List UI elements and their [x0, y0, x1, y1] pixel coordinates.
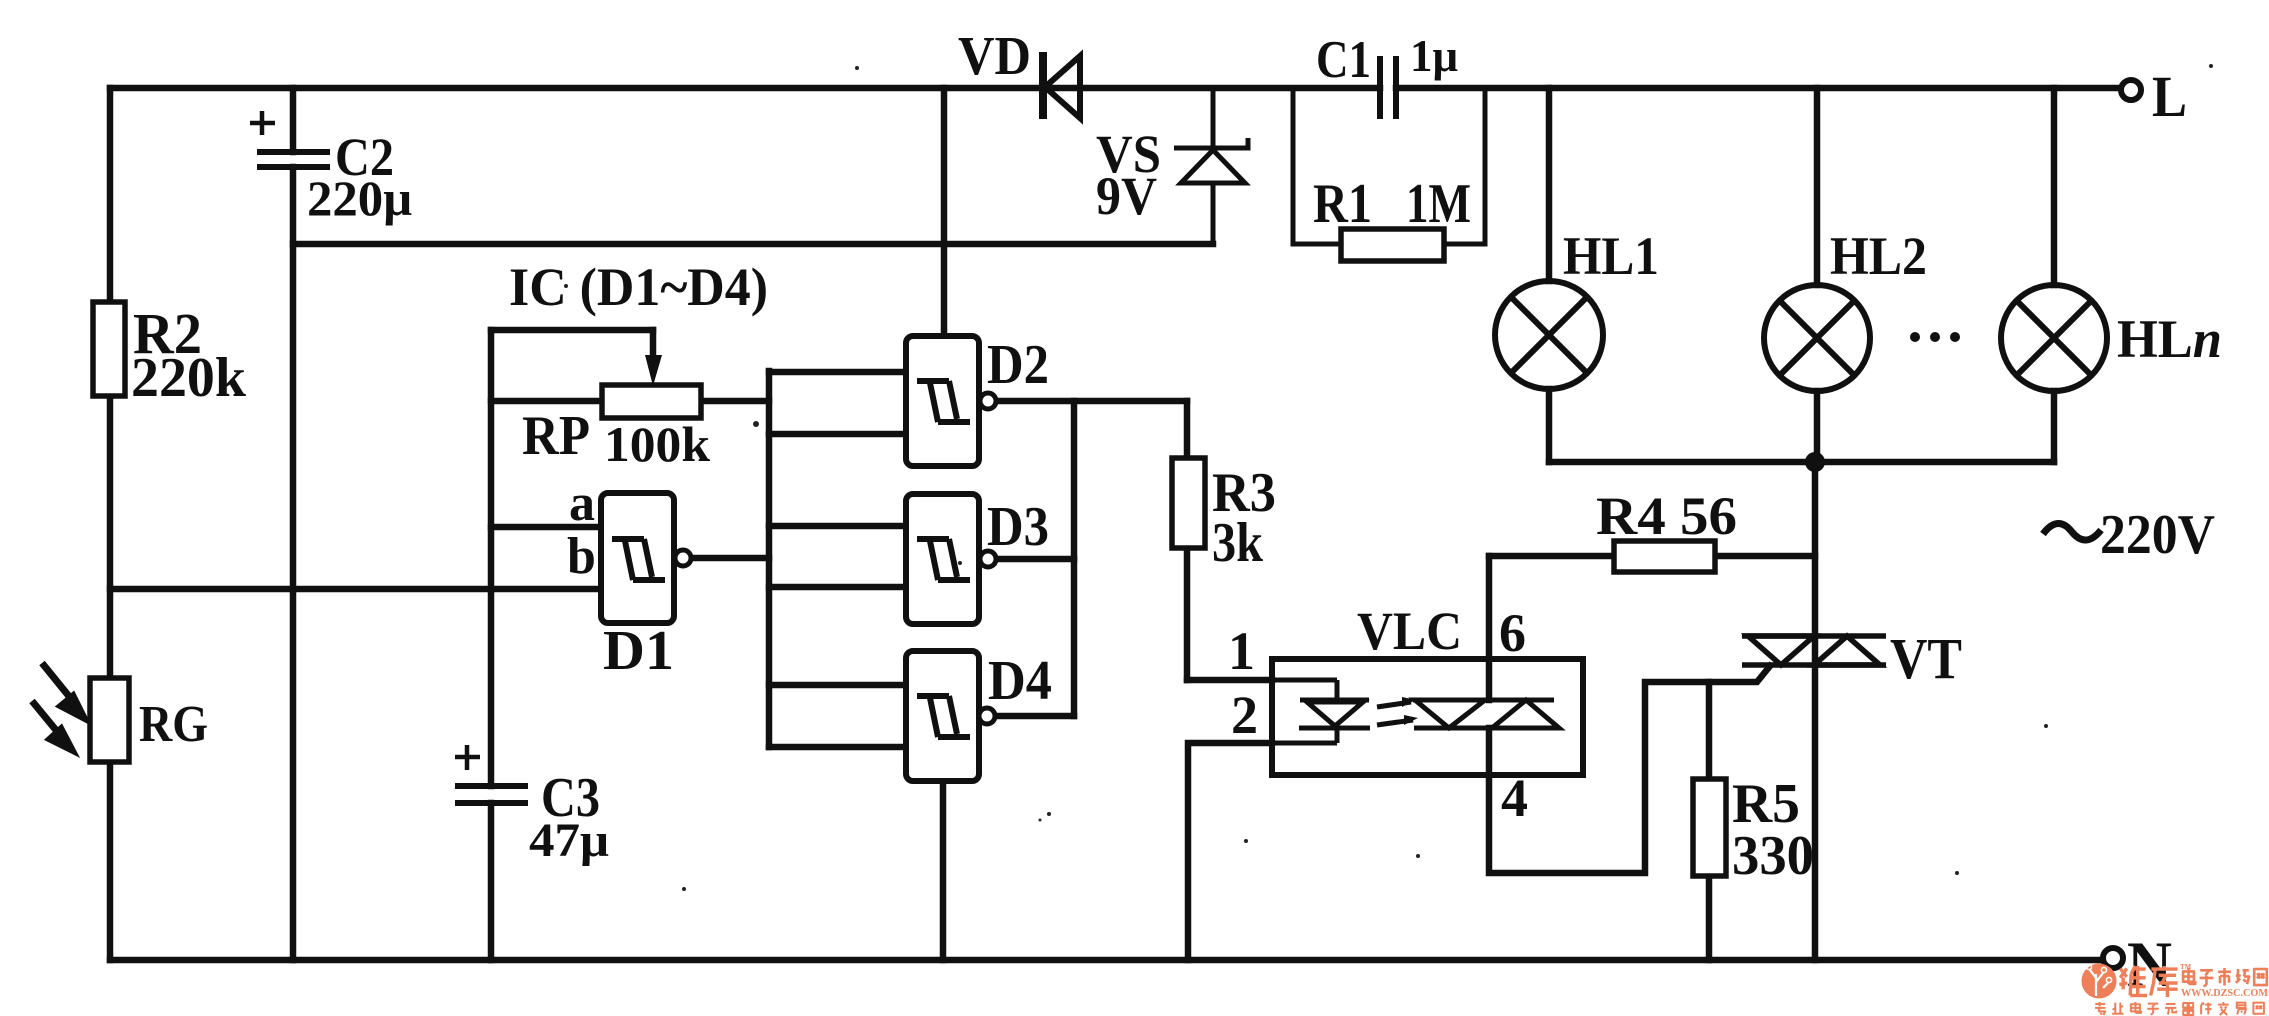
- svg-text:D2: D2: [987, 334, 1049, 396]
- svg-text:9V: 9V: [1096, 166, 1157, 226]
- svg-text:330: 330: [1732, 825, 1814, 887]
- svg-text:1: 1: [1228, 621, 1255, 681]
- svg-text:HL1: HL1: [1563, 226, 1659, 286]
- svg-text:2: 2: [1231, 685, 1258, 745]
- svg-text:VD: VD: [958, 25, 1031, 86]
- svg-text:WWW.DZSC.COM: WWW.DZSC.COM: [2181, 988, 2268, 999]
- svg-text:47μ: 47μ: [529, 814, 609, 867]
- svg-text:VT: VT: [1890, 626, 1962, 691]
- svg-text:HLn: HLn: [2117, 309, 2222, 369]
- svg-text:D3: D3: [987, 496, 1049, 558]
- svg-text:RP: RP: [522, 405, 590, 467]
- svg-text:220k: 220k: [131, 347, 247, 409]
- svg-text:VLC: VLC: [1357, 601, 1462, 661]
- svg-text:C1: C1: [1316, 31, 1371, 89]
- svg-text:RG: RG: [139, 696, 208, 753]
- svg-text:1M: 1M: [1406, 173, 1471, 235]
- svg-text:220V: 220V: [2100, 504, 2215, 566]
- svg-text:220μ: 220μ: [307, 170, 412, 226]
- svg-text:b: b: [567, 528, 596, 585]
- svg-text:3k: 3k: [1212, 512, 1264, 574]
- svg-text:D4: D4: [988, 650, 1052, 712]
- svg-text:1μ: 1μ: [1410, 30, 1458, 81]
- svg-text:100k: 100k: [604, 416, 710, 472]
- svg-text:R4 56: R4 56: [1596, 486, 1737, 546]
- svg-text:L: L: [2152, 64, 2187, 129]
- svg-text:D1: D1: [603, 620, 674, 682]
- svg-text:TM: TM: [2180, 963, 2192, 971]
- svg-text:HL2: HL2: [1830, 226, 1927, 286]
- svg-text:a: a: [569, 475, 595, 532]
- svg-text:6: 6: [1499, 603, 1526, 663]
- svg-text:IC (D1~D4): IC (D1~D4): [509, 257, 768, 317]
- svg-text:R1: R1: [1313, 173, 1372, 235]
- svg-text:4: 4: [1501, 768, 1528, 828]
